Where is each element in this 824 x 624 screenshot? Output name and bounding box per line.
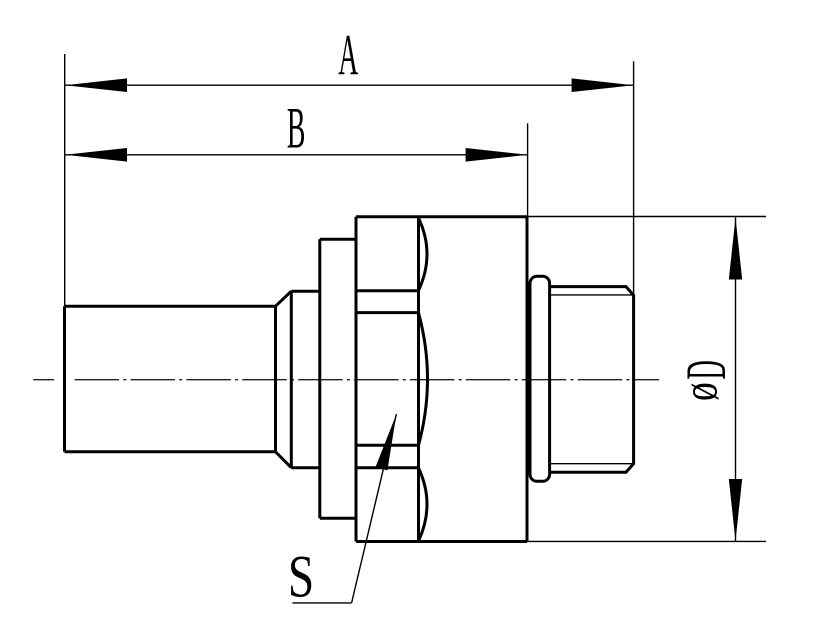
washer flange <box>320 239 356 518</box>
dimension A extension line right <box>633 61 635 295</box>
dimension A line <box>65 84 634 86</box>
leader S underline <box>292 602 351 604</box>
dimension D line <box>735 218 737 542</box>
thread minor lines (thin) <box>550 295 634 464</box>
dimension B line <box>65 154 528 156</box>
centerline (dash-dot axis) <box>33 379 54 381</box>
svg-text:A: A <box>338 22 358 87</box>
dimension D extension line top <box>527 216 766 218</box>
hex nut block <box>356 217 527 542</box>
dimension A extension line left <box>64 54 66 306</box>
tube (left small cylinder) outline <box>65 306 276 452</box>
hex-body boundary line <box>417 217 420 542</box>
dimension D extension line bottom <box>527 540 766 542</box>
hex corner arc middle <box>419 313 428 445</box>
body right edge <box>526 217 529 542</box>
svg-text:S: S <box>288 543 314 610</box>
dimension D arrow down <box>729 479 742 541</box>
svg-text:D: D <box>674 360 738 379</box>
dimension A arrow left <box>65 78 127 92</box>
leader S arrow <box>375 414 396 470</box>
dimension B arrow left <box>65 148 127 162</box>
svg-text:ø: ø <box>672 382 727 401</box>
hex facet lines <box>356 291 419 468</box>
dimension D arrow up <box>729 218 742 280</box>
o-ring collar tab <box>530 276 550 481</box>
leader S line <box>352 414 397 603</box>
threaded end outline <box>550 287 634 473</box>
dimension B extension line right <box>527 123 529 216</box>
neck section <box>291 291 320 468</box>
svg-text:B: B <box>287 95 306 160</box>
dimension A arrow right <box>572 78 634 92</box>
dimension B arrow right <box>466 148 528 162</box>
hex corner arc bottom <box>419 468 428 541</box>
cone transition diagonals <box>276 291 292 468</box>
hex corner arc top <box>419 218 428 291</box>
